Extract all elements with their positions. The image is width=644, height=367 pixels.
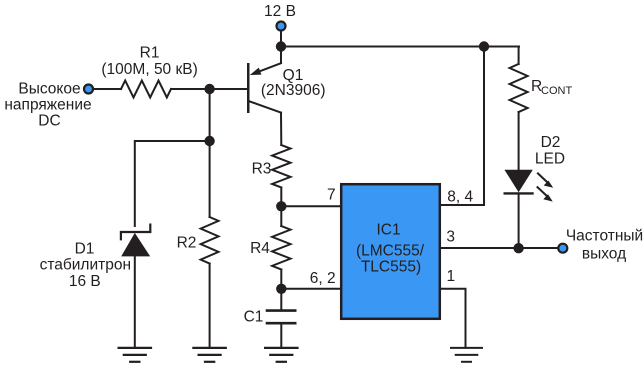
svg-text:(LMC555/: (LMC555/ [356,243,425,260]
wire RCONT corner down to resistor [518,47,520,65]
node junction pin 7 [276,201,286,211]
resistor R4 [272,206,290,288]
ground (C1) [265,348,297,362]
svg-text:(2N3906): (2N3906) [261,82,326,99]
svg-text:R1: R1 [140,45,160,62]
label HV input [4,81,91,130]
wire input terminal to R1 [94,88,121,90]
wire 12V terminal drop [280,31,282,47]
label output [566,227,643,262]
resistor R3 [272,145,290,188]
wire top rail from 12V junction to RCONT corner [281,46,519,48]
label R1 value [101,45,197,78]
terminal 12V [277,22,286,31]
svg-text:стабилитрон: стабилитрон [40,257,131,274]
label D1 zener [40,241,131,290]
ground (pin 1) [451,348,482,362]
svg-text:R4: R4 [250,240,270,257]
svg-text:3: 3 [446,228,455,245]
svg-text:R2: R2 [177,234,197,251]
wire D1 branch horizontal [135,141,210,226]
node junction top emitter [276,41,286,51]
node junction base/R1 [204,84,214,94]
label D2 LED [535,134,565,167]
capacitor C1 [267,289,295,348]
wire R3 to pin7 node [280,188,282,207]
svg-text:6, 2: 6, 2 [310,270,336,287]
label RCONT [531,78,572,97]
svg-text:(100М, 50 кВ): (100М, 50 кВ) [101,61,197,78]
svg-text:D1: D1 [75,241,95,258]
wire R2 to ground [209,264,211,348]
svg-text:LED: LED [535,150,565,167]
LED D2 [504,170,553,202]
node junction pin 6,2 [276,284,286,294]
svg-text:8, 4: 8, 4 [447,188,473,205]
wire base node down to D1 branch and R2 [209,89,211,217]
wire pin 1 to ground [441,289,466,348]
ground (R2) [193,348,225,362]
wire LED to output node [518,193,520,248]
svg-text:Высокое: Высокое [18,81,80,98]
node junction output [513,243,523,253]
svg-text:выход: выход [582,245,626,262]
svg-text:напряжение: напряжение [4,97,91,114]
node junction top right 8,4 [479,41,489,51]
resistor RCONT [510,64,528,112]
node junction D1 branch [204,136,214,146]
wire vertical to pin 8,4 [441,47,484,206]
resistor R2 [201,217,219,264]
op-amp/timer IC1 body [341,184,440,319]
svg-text:DC: DC [38,113,60,130]
wire pin 3 to output terminal [441,247,557,249]
terminal HV input [84,85,93,94]
wire pin 6,2 [281,288,341,290]
svg-text:TLC555): TLC555) [361,259,421,276]
transistor Q1 [247,47,281,146]
svg-text:IC1: IC1 [376,222,400,239]
svg-text:R3: R3 [252,161,272,178]
wire pin 7 [281,205,341,207]
svg-text:12 В: 12 В [264,3,296,20]
label IC1 [356,222,425,276]
wire R1 to base node [171,88,210,90]
resistor R1 [121,81,171,98]
terminal output [558,244,567,253]
label Q1 [261,67,326,99]
svg-text:D2: D2 [541,134,561,151]
svg-text:C1: C1 [244,309,264,326]
svg-text:Частотный: Частотный [566,227,643,244]
wire base node to Q1 base [210,88,247,90]
svg-text:16 В: 16 В [69,273,101,290]
zener diode D1 [121,225,150,348]
ground (D1) [119,348,151,362]
svg-text:7: 7 [327,186,336,203]
svg-text:1: 1 [447,268,456,285]
wire RCONT to LED [518,112,520,170]
svg-text:CONT: CONT [541,85,572,97]
